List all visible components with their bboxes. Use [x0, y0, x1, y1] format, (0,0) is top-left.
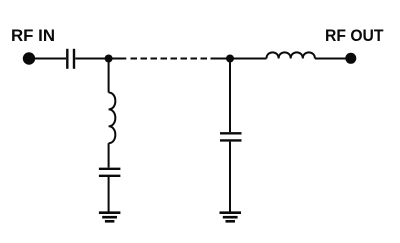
inductor L2 [267, 52, 315, 58]
wire [108, 143, 110, 167]
wire [34, 58, 66, 60]
inductor L1 [109, 93, 116, 144]
capacitor C3 [220, 133, 242, 140]
wire [211, 58, 231, 60]
wire dashed [131, 58, 208, 60]
ground [220, 213, 242, 222]
wire [230, 58, 267, 60]
svg-text:RF OUT: RF OUT [325, 26, 384, 45]
wire [108, 59, 110, 93]
node A [105, 55, 113, 63]
node B [226, 55, 234, 63]
wire [229, 142, 231, 213]
wire [108, 177, 110, 213]
capacitor C1 [67, 49, 74, 69]
wire [229, 59, 231, 133]
terminal RF IN [23, 52, 35, 64]
wire [75, 58, 108, 60]
wire [109, 58, 127, 60]
svg-text:RF IN: RF IN [11, 26, 55, 45]
wire [315, 58, 346, 60]
ground [99, 213, 121, 222]
capacitor C2 [99, 169, 121, 176]
terminal RF OUT [345, 53, 356, 64]
